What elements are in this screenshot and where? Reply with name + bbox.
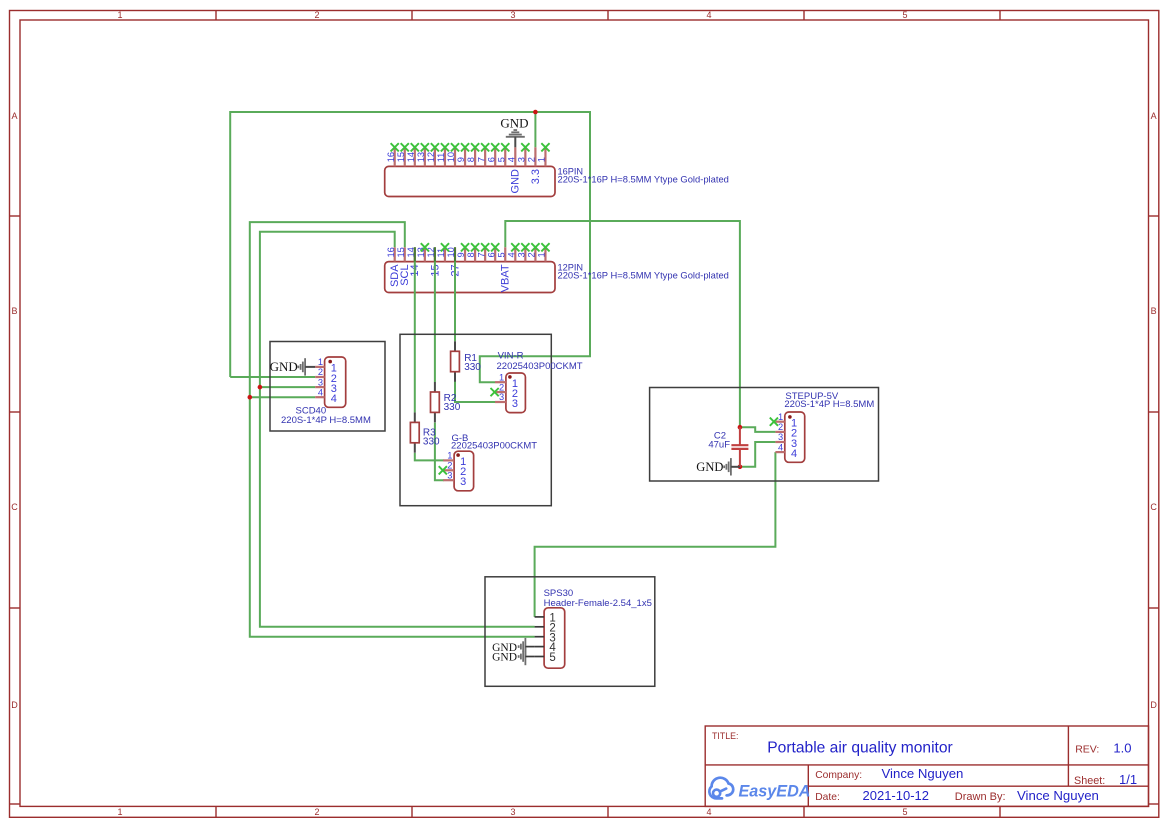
svg-text:REV:: REV: (1075, 743, 1099, 755)
frame SCD40 module (270, 342, 385, 432)
wire 12PIN pin12 to R2 (434, 247, 436, 382)
wire net 3V3 top (230, 112, 590, 382)
frame stepup module (650, 388, 879, 482)
ground GND at SPS30 pin4 (492, 638, 535, 655)
svg-text:2: 2 (499, 382, 504, 392)
wire VBAT to STEPUP pin2 (740, 427, 776, 432)
wire SCL to SCD40 pin4 (250, 396, 315, 398)
wire overlap at 12PIN pins (415, 247, 455, 261)
svg-text:15: 15 (396, 247, 406, 257)
svg-text:8: 8 (466, 157, 476, 162)
svg-text:3: 3 (516, 157, 526, 162)
wire 12PIN pin14 to R3 (414, 247, 416, 412)
svg-text:47uF: 47uF (708, 439, 730, 450)
svg-text:GND: GND (492, 652, 517, 664)
svg-text:1/1: 1/1 (1119, 772, 1137, 787)
svg-text:Header-Female-2.54_1x5: Header-Female-2.54_1x5 (544, 598, 652, 609)
svg-text:330: 330 (464, 362, 481, 373)
svg-text:8: 8 (466, 252, 476, 257)
svg-text:2: 2 (314, 807, 319, 817)
svg-text:6: 6 (486, 252, 496, 257)
connector P2 12PIN 220S-1*16P (385, 243, 729, 292)
svg-text:1: 1 (778, 412, 783, 422)
frame resistor network module (400, 334, 551, 505)
svg-text:Vince Nguyen: Vince Nguyen (1017, 788, 1099, 803)
ground GND at SPS30 pin5 (492, 648, 535, 665)
svg-text:A: A (11, 111, 17, 121)
svg-text:1: 1 (537, 252, 547, 257)
svg-text:B: B (11, 306, 17, 316)
svg-text:GND: GND (510, 169, 522, 194)
svg-text:4: 4 (706, 10, 711, 20)
connector P1 16PIN 220S-1*16P (385, 143, 729, 196)
svg-text:9: 9 (456, 157, 466, 162)
svg-text:2: 2 (318, 367, 323, 377)
connector STEPUP-5V 220S-1*4P (770, 391, 875, 462)
svg-text:22025403P00CKMT: 22025403P00CKMT (497, 361, 583, 372)
svg-text:1: 1 (318, 357, 323, 367)
EasyEDA logo (709, 778, 810, 801)
svg-text:VBAT: VBAT (500, 264, 512, 292)
resistor R3 330 (410, 412, 440, 452)
svg-text:EasyEDA: EasyEDA (739, 783, 811, 801)
svg-text:3: 3 (778, 432, 783, 442)
svg-text:220S-1*16P H=8.5MM Ytype Gold-: 220S-1*16P H=8.5MM Ytype Gold-plated (558, 174, 729, 185)
svg-text:4: 4 (506, 157, 516, 162)
connector VIN-R 22025403P00CKMT (491, 351, 583, 413)
svg-text:3.3: 3.3 (530, 169, 542, 184)
svg-text:2: 2 (447, 461, 452, 471)
svg-text:Company:: Company: (815, 770, 862, 781)
svg-text:4: 4 (331, 393, 337, 405)
svg-text:3: 3 (516, 252, 526, 257)
svg-text:220S-1*4P H=8.5MM: 220S-1*4P H=8.5MM (281, 415, 371, 426)
svg-text:7: 7 (476, 252, 486, 257)
svg-text:14: 14 (406, 152, 416, 162)
svg-text:Date:: Date: (815, 792, 840, 803)
wire STEPUP pin3 to C2 bottom (740, 442, 776, 467)
svg-text:220S-1*16P H=8.5MM Ytype Gold-: 220S-1*16P H=8.5MM Ytype Gold-plated (558, 270, 729, 281)
wire R3 to G-B pin1 (415, 453, 444, 460)
node 3V3 junction (533, 110, 538, 115)
wire R1 to VIN-R pin3 (455, 381, 495, 402)
svg-text:D: D (11, 700, 18, 710)
svg-text:2: 2 (527, 252, 537, 257)
svg-text:Vince Nguyen: Vince Nguyen (882, 766, 964, 781)
wire 12PIN pin10 to R1 (454, 247, 456, 341)
svg-text:B: B (1151, 306, 1157, 316)
frame SPS30 module (485, 577, 655, 687)
svg-text:330: 330 (423, 436, 440, 447)
capacitor C2 47uF (708, 427, 748, 467)
svg-text:3: 3 (460, 476, 466, 488)
svg-text:Sheet:: Sheet: (1074, 775, 1105, 787)
svg-text:220S-1*4P H=8.5MM: 220S-1*4P H=8.5MM (784, 399, 874, 410)
svg-text:5: 5 (496, 252, 506, 257)
svg-text:5: 5 (902, 10, 907, 20)
wire SDA to SCD40 pin3 (260, 386, 315, 388)
svg-text:330: 330 (444, 402, 461, 413)
svg-text:2: 2 (527, 157, 537, 162)
svg-text:GND: GND (500, 116, 528, 131)
svg-text:Drawn By:: Drawn By: (955, 791, 1006, 803)
node SDA junction (258, 385, 263, 390)
svg-text:2: 2 (778, 422, 783, 432)
title block (705, 726, 1148, 806)
svg-text:1: 1 (499, 372, 504, 382)
wire R2 to G-B pin3 (435, 423, 444, 481)
svg-text:5: 5 (902, 807, 907, 817)
svg-text:11: 11 (436, 153, 446, 163)
svg-text:C: C (11, 502, 18, 512)
svg-text:3: 3 (510, 807, 515, 817)
svg-text:2: 2 (314, 10, 319, 20)
svg-text:12: 12 (426, 152, 436, 162)
wire net 5V STEPUP pin4 to SPS30 pin1 (535, 452, 776, 617)
svg-text:1: 1 (117, 10, 122, 20)
connector SCD40 220S-1*4P (281, 357, 371, 426)
connector SPS30 Header-Female-2.54_1x5 (535, 588, 652, 668)
svg-text:A: A (1151, 111, 1157, 121)
resistor R2 330 (431, 382, 461, 422)
svg-text:4: 4 (778, 442, 783, 452)
resistor R1 330 (451, 341, 482, 381)
wire net VBAT (505, 221, 740, 427)
wire net SCL vertical (250, 222, 535, 637)
svg-text:10: 10 (446, 152, 456, 162)
svg-text:1.0: 1.0 (1113, 741, 1131, 756)
node SCL junction (248, 395, 253, 400)
wire net SDA vertical (260, 232, 535, 627)
svg-text:3: 3 (318, 377, 323, 387)
svg-text:3: 3 (512, 398, 518, 410)
svg-text:C: C (1150, 502, 1157, 512)
svg-text:16: 16 (386, 152, 396, 162)
svg-text:5: 5 (496, 157, 506, 162)
wire 3V3 to SCD40 pin2 (230, 376, 315, 378)
svg-text:2021-10-12: 2021-10-12 (863, 788, 930, 803)
svg-text:4: 4 (506, 252, 516, 257)
svg-text:11: 11 (436, 248, 446, 258)
svg-text:6: 6 (486, 157, 496, 162)
svg-text:3: 3 (499, 392, 504, 402)
svg-text:4: 4 (791, 448, 797, 460)
ground GND at SCD40 pin1 (270, 358, 316, 375)
svg-text:15: 15 (396, 152, 406, 162)
svg-text:GND: GND (270, 359, 298, 374)
ground GND at 16PIN pin4 (500, 116, 528, 148)
svg-text:7: 7 (476, 157, 486, 162)
svg-text:3: 3 (447, 470, 452, 480)
svg-text:4: 4 (706, 807, 711, 817)
ground GND at C2 (696, 458, 740, 475)
connector G-B 22025403P00CKMT (439, 433, 538, 491)
svg-text:1: 1 (447, 451, 452, 461)
node VBAT junction C2 top (738, 425, 743, 430)
svg-text:1: 1 (117, 807, 122, 817)
svg-text:4: 4 (318, 387, 323, 397)
node GND junction C2 bottom (738, 465, 743, 470)
svg-text:9: 9 (456, 252, 466, 257)
svg-text:D: D (1150, 700, 1157, 710)
svg-text:Portable air quality monitor: Portable air quality monitor (767, 740, 952, 757)
svg-text:GND: GND (696, 460, 723, 474)
svg-text:22025403P00CKMT: 22025403P00CKMT (451, 441, 537, 452)
svg-text:5: 5 (549, 652, 555, 664)
svg-text:TITLE:: TITLE: (712, 731, 738, 741)
svg-text:1: 1 (537, 157, 547, 162)
wire 3V3 to 16PIN pin2 (534, 112, 536, 147)
svg-text:13: 13 (416, 152, 426, 162)
svg-text:16: 16 (386, 247, 396, 257)
svg-text:3: 3 (510, 10, 515, 20)
